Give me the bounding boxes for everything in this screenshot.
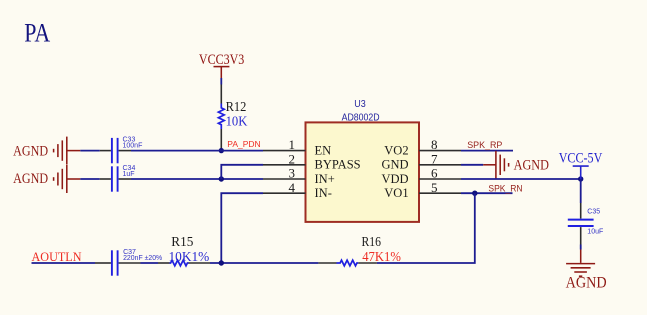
svg-text:IN+: IN+ bbox=[315, 172, 335, 186]
svg-text:AGND: AGND bbox=[13, 144, 48, 160]
pin 5 VO1 line bbox=[419, 192, 461, 194]
svg-text:R16: R16 bbox=[362, 235, 382, 250]
junction node SPK_RN bbox=[472, 191, 477, 196]
svg-text:7: 7 bbox=[431, 151, 438, 166]
pin 3 IN+ line bbox=[263, 178, 306, 180]
svg-text:100nF: 100nF bbox=[123, 142, 143, 149]
pin 1 EN line bbox=[263, 150, 306, 152]
svg-text:VCC-5V: VCC-5V bbox=[559, 151, 603, 167]
svg-text:AOUTLN: AOUTLN bbox=[32, 249, 83, 264]
wire pin4 elbow down to R15/R16 junction bbox=[221, 193, 263, 263]
wire C33 to pin1 (PA_PDN net) bbox=[131, 150, 263, 152]
junction node PA_PDN at R12/C33/pin1 bbox=[219, 148, 224, 153]
svg-text:PA: PA bbox=[24, 18, 50, 47]
svg-text:U3: U3 bbox=[354, 99, 366, 110]
svg-text:3: 3 bbox=[289, 166, 296, 181]
capacitor C37 bbox=[95, 250, 141, 275]
svg-text:IN-: IN- bbox=[315, 186, 332, 200]
power port AGND left 1 bbox=[13, 137, 80, 165]
wire pin7 GND to AGND bbox=[461, 164, 483, 166]
svg-text:5: 5 bbox=[431, 180, 438, 195]
wire C34 to pin3 bbox=[131, 178, 263, 180]
svg-text:10uF: 10uF bbox=[587, 229, 603, 236]
resistor R12 bbox=[218, 85, 224, 151]
wire pin2 elbow down to pin3 net bbox=[221, 165, 263, 179]
junction node at C34/pin3/bypass bbox=[219, 176, 224, 181]
svg-text:VO2: VO2 bbox=[384, 143, 408, 157]
power port VCC-5V bbox=[559, 151, 603, 179]
pin 2 BYPASS line bbox=[263, 164, 306, 166]
svg-text:4: 4 bbox=[289, 180, 296, 195]
svg-text:VO1: VO1 bbox=[384, 186, 408, 200]
svg-text:1: 1 bbox=[289, 137, 296, 152]
junction node VCC-5V bbox=[578, 176, 583, 181]
svg-text:C35: C35 bbox=[587, 208, 600, 215]
svg-text:SPK_RN: SPK_RN bbox=[488, 184, 522, 194]
pin 6 VDD line bbox=[419, 178, 461, 180]
svg-text:220nF ±20%: 220nF ±20% bbox=[123, 255, 162, 262]
svg-text:47K1%: 47K1% bbox=[362, 250, 401, 265]
wire SPK_RN down to R16 bbox=[377, 193, 475, 263]
svg-text:R15: R15 bbox=[171, 235, 193, 250]
svg-text:10K: 10K bbox=[226, 113, 248, 128]
svg-text:PA_PDN: PA_PDN bbox=[227, 139, 260, 149]
capacitor C33 bbox=[100, 138, 131, 163]
svg-text:SPK_RP: SPK_RP bbox=[467, 140, 502, 150]
wire VCC3V3 to R12 bbox=[220, 78, 222, 85]
svg-text:VCC3V3: VCC3V3 bbox=[199, 52, 244, 68]
svg-text:EN: EN bbox=[315, 143, 332, 157]
svg-text:8: 8 bbox=[431, 137, 438, 152]
resistor R15 bbox=[158, 260, 210, 266]
svg-text:10K1%: 10K1% bbox=[169, 250, 210, 265]
svg-text:GND: GND bbox=[382, 158, 409, 172]
resistor R16 bbox=[318, 260, 377, 266]
power port VCC3V3 bbox=[199, 52, 244, 78]
capacitor C34 bbox=[100, 166, 131, 191]
wire pin6 VDD to VCC-5V bbox=[461, 178, 581, 180]
wire AGND1 to C33 bbox=[80, 150, 100, 152]
wire AGND2 to C34 bbox=[80, 178, 100, 180]
svg-text:BYPASS: BYPASS bbox=[315, 158, 361, 172]
pin 4 IN- line bbox=[263, 192, 306, 194]
svg-text:AGND: AGND bbox=[514, 158, 549, 174]
power port AGND bottom bbox=[566, 250, 607, 292]
wire AOUTLN to C37 bbox=[32, 262, 96, 264]
junction node IN- / R15 / R16 bbox=[219, 260, 224, 265]
svg-text:AD8002D: AD8002D bbox=[342, 112, 380, 123]
svg-text:AGND: AGND bbox=[566, 274, 607, 291]
wire VCC-5V junction down to C35 bbox=[580, 179, 582, 203]
wire pin8 SPK_RP bbox=[461, 150, 513, 152]
svg-text:VDD: VDD bbox=[382, 172, 409, 186]
svg-text:AGND: AGND bbox=[13, 171, 48, 187]
capacitor C35 bbox=[568, 203, 594, 245]
svg-text:6: 6 bbox=[431, 166, 438, 181]
power port AGND left 2 bbox=[13, 165, 80, 193]
pin 8 VO2 line bbox=[419, 150, 461, 152]
wire C35 to AGND bbox=[580, 245, 582, 250]
IC U3 AD8002D body bbox=[306, 122, 420, 221]
pin 7 GND line bbox=[419, 164, 461, 166]
wire R15 to R16 bbox=[210, 262, 318, 264]
svg-text:2: 2 bbox=[289, 151, 296, 166]
wire C37 to R15 bbox=[141, 262, 159, 264]
svg-text:R12: R12 bbox=[226, 99, 247, 114]
svg-text:1uF: 1uF bbox=[123, 171, 135, 178]
power port AGND right bbox=[483, 151, 549, 179]
wire pin5 SPK_RN bbox=[461, 192, 513, 194]
